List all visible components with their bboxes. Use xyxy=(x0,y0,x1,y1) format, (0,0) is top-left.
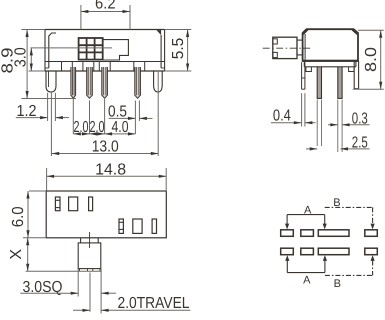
svg-text:3.0: 3.0 xyxy=(12,47,29,67)
svg-text:B: B xyxy=(334,278,341,290)
svg-text:8.0: 8.0 xyxy=(363,47,380,72)
svg-text:X: X xyxy=(8,249,25,260)
svg-text:6.2: 6.2 xyxy=(95,0,116,13)
svg-text:A: A xyxy=(304,204,312,216)
svg-text:A: A xyxy=(303,274,311,286)
svg-text:5.5: 5.5 xyxy=(170,38,187,60)
svg-text:2.0TRAVEL: 2.0TRAVEL xyxy=(118,295,190,312)
svg-text:4.0: 4.0 xyxy=(112,119,129,136)
svg-text:14.8: 14.8 xyxy=(95,162,126,179)
svg-text:13.0: 13.0 xyxy=(92,138,119,155)
svg-text:0.4: 0.4 xyxy=(273,107,291,124)
svg-text:2.0: 2.0 xyxy=(74,119,89,136)
svg-text:1.2: 1.2 xyxy=(17,103,37,120)
svg-text:0.5: 0.5 xyxy=(108,103,127,120)
svg-text:B: B xyxy=(333,197,340,209)
svg-text:2.0: 2.0 xyxy=(90,119,105,136)
svg-text:6.0: 6.0 xyxy=(10,206,27,227)
